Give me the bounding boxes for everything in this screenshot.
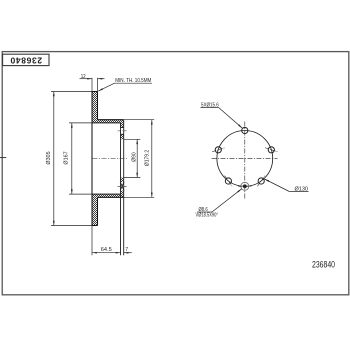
svg-text:236840: 236840 xyxy=(312,260,335,270)
svg-text:236840: 236840 xyxy=(10,56,42,66)
svg-text:Ø179.2: Ø179.2 xyxy=(144,150,150,166)
svg-text:Ø130: Ø130 xyxy=(295,186,309,192)
svg-text:Ø90: Ø90 xyxy=(132,152,138,162)
svg-text:7: 7 xyxy=(125,247,128,253)
svg-text:MIN. TH. 10.5MM: MIN. TH. 10.5MM xyxy=(115,78,152,84)
svg-text:5XØ15.6: 5XØ15.6 xyxy=(201,102,219,108)
svg-text:VØ18.5X90°: VØ18.5X90° xyxy=(196,213,219,219)
svg-text:Ø305: Ø305 xyxy=(46,151,52,164)
svg-text:12: 12 xyxy=(81,74,86,80)
svg-text:64.5: 64.5 xyxy=(101,247,112,253)
svg-text:Ø167: Ø167 xyxy=(64,151,70,164)
